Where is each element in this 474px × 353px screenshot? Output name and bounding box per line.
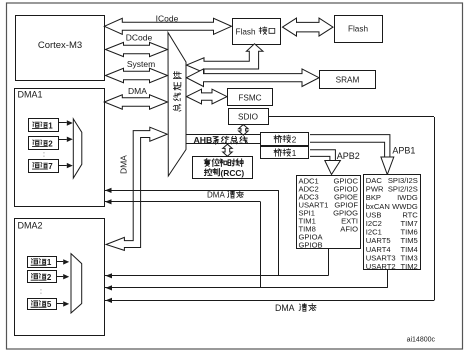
channel box 通道1 (DMA2) bbox=[28, 257, 57, 268]
arrowhead APB1 bbox=[381, 157, 394, 175]
arrows channels to arbiter (DMA1) bbox=[59, 122, 67, 124]
vertical label 总线矩阵 (rotated) bbox=[173, 72, 181, 79]
svg-text:1: 1 bbox=[47, 258, 52, 267]
svg-text:DCode: DCode bbox=[126, 33, 153, 43]
wire APB2 bottom vertical bbox=[328, 248, 330, 275]
wire pair bridge1-APB2 bbox=[310, 150, 335, 161]
block FSMC bbox=[228, 89, 273, 106]
svg-text:Flash: Flash bbox=[236, 28, 256, 37]
svg-text:DMA2: DMA2 bbox=[18, 221, 43, 231]
AHB bus bottom line bbox=[186, 143, 262, 145]
block Flash interface Flash接口 bbox=[233, 19, 281, 45]
label 复位和时钟 控制(RCC) bbox=[204, 159, 210, 167]
svg-text::: : bbox=[43, 152, 45, 159]
svg-text:DMA: DMA bbox=[275, 303, 295, 313]
wire APB1 bottom vertical bbox=[387, 270, 389, 288]
block APB1 peripherals bbox=[364, 175, 421, 270]
svg-text:SRAM: SRAM bbox=[336, 76, 360, 85]
arrow AHB-RCC bbox=[223, 144, 233, 156]
svg-text:DMA: DMA bbox=[128, 86, 147, 96]
DCode bus arrow bbox=[106, 42, 168, 56]
svg-text:DMA1: DMA1 bbox=[18, 90, 43, 100]
svg-text:TIM2: TIM2 bbox=[400, 262, 417, 271]
DMA bus arrow (DMA1 to matrix) bbox=[104, 95, 167, 109]
arbiter funnel DMA2 bbox=[71, 254, 82, 313]
wire pair bridge2-APB1 bbox=[310, 135, 390, 157]
DMA request line 3 (SDIO to DMA2) bbox=[105, 300, 434, 302]
channel box 通道5 (DMA2) bbox=[28, 299, 57, 310]
bent DMA arrow matrix-DMA2 bbox=[106, 127, 167, 250]
arrowhead APB2 bbox=[325, 161, 341, 175]
channel box 通道7 (DMA1) bbox=[29, 160, 59, 173]
ICode bus arrow bbox=[104, 18, 231, 34]
block SDIO bbox=[229, 109, 269, 125]
svg-text:1: 1 bbox=[48, 121, 53, 130]
svg-text:FSMC: FSMC bbox=[238, 93, 261, 102]
svg-text:(RCC): (RCC) bbox=[221, 168, 245, 178]
arrow Flash接口-Flash bbox=[283, 18, 334, 36]
svg-text:USART2: USART2 bbox=[366, 262, 396, 271]
svg-text::: : bbox=[40, 289, 42, 296]
svg-text:System: System bbox=[127, 59, 155, 69]
channel box 通道1 (DMA1) bbox=[29, 119, 59, 132]
svg-text:5: 5 bbox=[47, 300, 52, 309]
DMA request line 2 (APB1 to DMA2) bbox=[105, 287, 387, 289]
DMA request line 1 (APB2 to DMA2) bbox=[105, 275, 328, 277]
block bridge2 桥接2 bbox=[261, 133, 309, 146]
svg-text:AHB: AHB bbox=[194, 135, 213, 145]
block SRAM bbox=[320, 71, 376, 89]
label 桥接1 bbox=[274, 149, 281, 157]
svg-text:APB2: APB2 bbox=[337, 151, 360, 161]
block Flash bbox=[335, 16, 383, 43]
wire right vertical x434 bbox=[434, 117, 436, 300]
AHB bus top line bbox=[186, 134, 262, 136]
block Cortex-M3 bbox=[16, 16, 105, 81]
block DMA1 bbox=[15, 89, 105, 207]
svg-text:DMA: DMA bbox=[119, 155, 129, 174]
DMA request line B (to DMA1) bbox=[105, 201, 261, 203]
System bus arrow bbox=[106, 68, 168, 82]
svg-text:SDIO: SDIO bbox=[238, 112, 258, 121]
svg-text:ICode: ICode bbox=[156, 14, 179, 24]
block APB2 peripherals bbox=[297, 176, 361, 249]
svg-text:ai14800c: ai14800c bbox=[407, 337, 436, 344]
svg-text:7: 7 bbox=[48, 162, 53, 171]
svg-text:Cortex-M3: Cortex-M3 bbox=[38, 40, 82, 51]
svg-text:Flash: Flash bbox=[348, 25, 368, 34]
wire vertical x279 bbox=[278, 190, 280, 275]
channel box 通道2 (DMA1) bbox=[29, 137, 59, 150]
block RCC 复位和时钟控制 bbox=[193, 157, 253, 179]
svg-text:2: 2 bbox=[48, 139, 53, 148]
wire vertical x260 bbox=[260, 202, 262, 288]
svg-text:APB1: APB1 bbox=[392, 146, 415, 156]
arrow matrix-SRAM bbox=[187, 69, 320, 87]
block bridge1 桥接1 bbox=[261, 147, 309, 159]
bus matrix 总线矩阵 bbox=[168, 33, 186, 177]
block DMA2 bbox=[15, 219, 105, 336]
svg-text:DMA: DMA bbox=[207, 191, 225, 200]
arrow matrix-FSMC bbox=[187, 89, 228, 104]
channel box 通道2 (DMA2) bbox=[28, 271, 57, 283]
bent arrow matrix-Flash接口 bbox=[187, 44, 264, 73]
svg-text:GPIOB: GPIOB bbox=[299, 241, 323, 250]
DMA request line A (to DMA1) bbox=[105, 190, 279, 192]
arrow SDIO-AHB bbox=[239, 125, 249, 136]
arrows channels to arbiter (DMA2) bbox=[56, 261, 63, 263]
wire SDIO to right vertical bbox=[268, 116, 434, 118]
label 桥接2 bbox=[274, 135, 281, 143]
svg-text:2: 2 bbox=[47, 273, 52, 282]
svg-text:2: 2 bbox=[292, 136, 297, 145]
arbiter funnel DMA1 bbox=[73, 119, 82, 178]
svg-text:AFIO: AFIO bbox=[340, 225, 358, 234]
svg-text:1: 1 bbox=[292, 149, 297, 158]
